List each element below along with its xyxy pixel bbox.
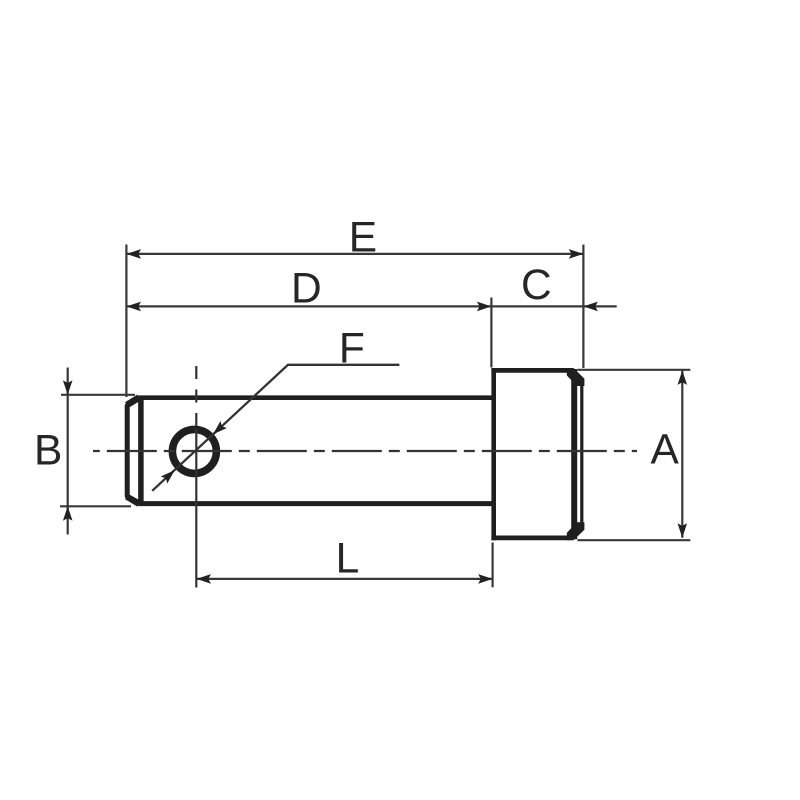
right extension line for E and C [582,245,584,369]
leader line F [152,365,399,491]
dimension L right arrow [478,574,493,584]
dimension A line [681,370,683,537]
pin left bottom chamfer wedge [127,497,139,504]
head right cap edge [580,380,583,528]
dimension A top arrow [678,370,688,385]
dimension D left arrow [127,302,142,312]
horizontal centerline [93,450,637,452]
dimension B bottom arrow [63,506,73,521]
dimension D and C line [127,305,617,307]
head top edge [491,368,570,373]
dimension E left arrow [127,249,142,259]
dimension A bottom extension line [578,539,691,541]
dimension E line [127,253,584,255]
svg-text:D: D [291,266,322,313]
left extension line for E and D [125,245,127,398]
svg-text:L: L [336,536,360,583]
head top right chamfer wedge [567,368,585,386]
head left edge [491,368,496,540]
head bottom edge [491,536,570,541]
pin left end cap outline [127,398,140,504]
extension line for D right / L right top [490,298,492,368]
svg-text:A: A [651,426,680,473]
dimension E right arrow [569,249,584,259]
pin left top chamfer wedge [127,397,139,405]
dimension L right extension line [492,543,494,588]
dimension B top extension line [61,394,135,396]
dimension L line [197,578,493,580]
dimension B top arrow [63,380,73,395]
dimension C right arrow [583,302,598,312]
cotter pin hole [172,429,216,473]
vertical centerline lower / L extension [195,429,197,588]
svg-text:C: C [521,262,552,309]
dimension A top extension line [578,369,691,371]
leader F upper arrow [210,421,227,438]
svg-text:E: E [349,214,377,261]
head right chamfer line [571,369,577,539]
head bottom right chamfer wedge [567,522,585,540]
dimension A bottom arrow [678,523,688,538]
pin shank bottom edge [139,501,495,506]
svg-text:F: F [339,326,365,373]
svg-text:B: B [34,428,62,475]
vertical centerline upper [195,366,197,429]
leader F lower arrow [161,467,178,484]
dimension B line [67,368,69,535]
dimension B bottom extension line [60,505,131,507]
dimension L left arrow [197,574,212,584]
pin shank top edge [139,395,495,400]
pin left chamfer line [138,396,144,506]
dimension D right arrow [477,302,492,312]
